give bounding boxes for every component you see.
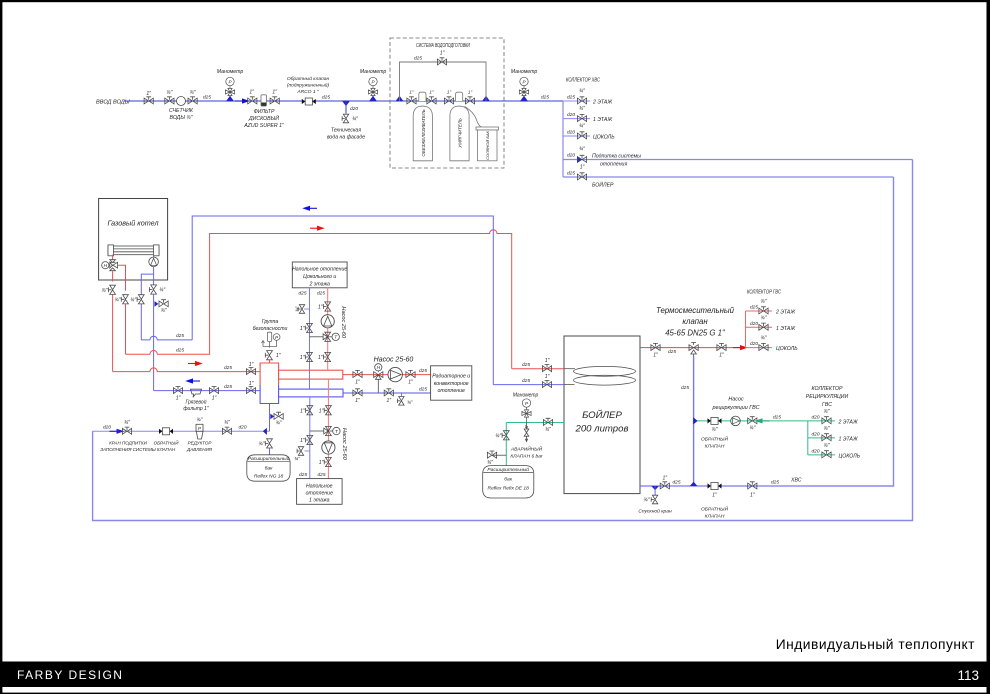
svg-text:d25: d25 (567, 171, 575, 177)
svg-text:1": 1" (176, 396, 181, 402)
valve 1" boiler branch (567, 165, 614, 189)
pump upper circuit 25-60 (321, 306, 346, 339)
wire technical water drop (345, 101, 347, 114)
svg-text:ОБЕЗЖЕЛЕЗИВАТЕЛЬ: ОБЕЗЖЕЛЕЗИВАТЕЛЬ (421, 109, 426, 156)
svg-text:¾": ¾" (407, 400, 413, 405)
svg-text:¾": ¾" (166, 90, 172, 96)
manifold return pipe (279, 389, 343, 397)
flow arrow recirc (755, 418, 770, 423)
wire boiler return down (153, 294, 155, 391)
svg-text:1 ЭТАЖ: 1 ЭТАЖ (776, 326, 796, 332)
valve 1" radiator supply (353, 370, 362, 385)
svg-text:1": 1" (440, 51, 445, 57)
svg-text:Расширительный: Расширительный (248, 455, 290, 462)
svg-text:1": 1" (355, 380, 360, 386)
wire boiler supply A down (112, 294, 114, 371)
svg-text:ГВС: ГВС (822, 402, 832, 408)
check valve make-up (154, 428, 180, 452)
svg-text:ЦОКОЛЬ: ЦОКОЛЬ (593, 135, 615, 141)
drain valve radiator return (398, 393, 413, 405)
node at manometer 2 (369, 96, 377, 102)
svg-text:клапан: клапан (682, 317, 708, 326)
valve 3/4" recirc 2 floor (812, 409, 859, 426)
wire boiler supply B down (125, 304, 127, 354)
svg-text:СОЛЯНОЙ БАК: СОЛЯНОЙ БАК (485, 130, 490, 159)
brine tank (476, 127, 499, 161)
svg-text:¾": ¾" (761, 299, 767, 305)
wire heating supply to separator (113, 368, 261, 372)
wire coil return outlet (493, 384, 564, 386)
valve 3/4" dhw return riser (130, 295, 144, 304)
valve 1" dhw outlet (651, 343, 660, 358)
svg-text:¾": ¾" (579, 89, 585, 95)
svg-text:¾": ¾" (159, 288, 165, 294)
valve 3/4" dhw 1 floor (750, 315, 796, 332)
valve 1" radiator return left (353, 389, 362, 404)
valve 1" radiator supply right (406, 370, 415, 385)
dhw tank body (564, 336, 640, 494)
svg-text:Напольное: Напольное (306, 484, 333, 490)
svg-text:РЕДУКТОР: РЕДУКТОР (188, 441, 212, 446)
svg-text:ВОДЫ ¾": ВОДЫ ¾" (169, 115, 193, 121)
wire recirc green line (694, 420, 808, 422)
svg-text:бак: бак (504, 477, 512, 483)
mixing valve lower circuit (310, 426, 340, 435)
svg-text:¾": ¾" (352, 117, 358, 123)
svg-text:1": 1" (276, 353, 281, 359)
flow arrow dhw return (302, 206, 317, 211)
svg-text:¾": ¾" (712, 427, 718, 433)
valve 3/4" branch 2 floor (567, 89, 613, 106)
drain valve technical water 3/4" (327, 114, 365, 140)
svg-text:УМЯГЧИТЕЛЬ: УМЯГЧИТЕЛЬ (458, 118, 463, 148)
svg-text:¾": ¾" (749, 426, 755, 432)
svg-text:¾": ¾" (102, 288, 108, 294)
valve 1" inlet (144, 91, 153, 104)
svg-text:2 ЭТАЖ: 2 ЭТАЖ (838, 419, 859, 425)
svg-text:¾": ¾" (761, 315, 767, 321)
svg-text:Манометр: Манометр (217, 69, 244, 75)
svg-text:d25: d25 (322, 95, 330, 101)
bottom page edge line (0, 693, 990, 694)
svg-text:1": 1" (409, 90, 414, 95)
node at manometer 3 (520, 96, 528, 102)
svg-text:d20: d20 (750, 321, 758, 327)
wire collector vertical (562, 101, 564, 177)
valve 3/4" recirc 1 floor (812, 426, 859, 443)
valve 1" bypass (437, 51, 446, 65)
svg-text:Цокольного и: Цокольного и (303, 274, 336, 280)
pump radiator branch (388, 367, 402, 381)
drain valve Спускной кран (638, 495, 672, 514)
svg-text:d25: d25 (750, 305, 758, 311)
svg-text:Термосмесительный: Термосмесительный (656, 306, 735, 315)
svg-text:конвекторное: конвекторное (434, 381, 469, 387)
pressure reducer (186, 418, 213, 453)
node bypass right (482, 96, 490, 102)
wire branch 1 floor (563, 118, 590, 120)
wire bypass line (400, 62, 487, 101)
svg-text:d25: d25 (419, 387, 427, 393)
wire upper return riser (309, 288, 311, 389)
svg-text:1": 1" (663, 476, 668, 482)
svg-text:d20: d20 (103, 425, 111, 431)
border frame top (0, 0, 990, 2)
svg-text:Грязевой: Грязевой (185, 399, 206, 406)
flow arrow on inlet line (235, 98, 250, 103)
svg-text:¾": ¾" (190, 90, 196, 96)
wire tank drain stub (654, 486, 656, 495)
svg-text:1": 1" (319, 460, 324, 466)
svg-text:СИСТЕМА ВОДОПОДГОТОВКИ: СИСТЕМА ВОДОПОДГОТОВКИ (416, 43, 470, 49)
svg-text:¾": ¾" (124, 420, 130, 426)
svg-text:1": 1" (146, 91, 151, 97)
safety relief valve 6 bar (510, 423, 543, 460)
valve 1" after vessel 2 (465, 90, 474, 104)
svg-text:d25: d25 (541, 95, 549, 101)
svg-text:¾": ¾" (276, 421, 282, 427)
wire exchanger to pump (153, 255, 155, 257)
svg-text:d20: d20 (812, 431, 820, 437)
wire lower supply riser (327, 379, 329, 479)
border frame left (0, 0, 2, 694)
valve 1" separator return (246, 381, 255, 394)
svg-text:Спускной кран: Спускной кран (638, 508, 672, 515)
svg-text:ФИЛЬТР: ФИЛЬТР (254, 109, 275, 115)
svg-text:1 ЭТАЖ: 1 ЭТАЖ (839, 436, 859, 442)
svg-text:1": 1" (712, 493, 717, 499)
wire separator bottom drop (269, 404, 271, 432)
valve 3/4" branch basement (567, 124, 615, 141)
svg-text:¾": ¾" (579, 147, 585, 153)
node at manometer 1 (226, 96, 234, 102)
svg-text:113: 113 (957, 668, 979, 683)
svg-text:d25: d25 (414, 56, 422, 62)
svg-text:КРАН ПОДПИТКИ: КРАН ПОДПИТКИ (109, 441, 147, 446)
node recirc junction (693, 417, 697, 424)
valve 3/4" dhw 2 floor (750, 299, 796, 316)
svg-text:ДИСКОВЫЙ: ДИСКОВЫЙ (248, 114, 279, 122)
wire radiator return (343, 392, 431, 394)
svg-text:1": 1" (318, 355, 323, 361)
svg-text:¾": ¾" (161, 308, 167, 314)
svg-text:БОЙЛЕР: БОЙЛЕР (592, 181, 614, 189)
valve 1" before vessel 2 (444, 90, 453, 104)
valve 1" cold line (748, 482, 757, 499)
valve 1" after vessel 1 (427, 90, 436, 104)
svg-text:d25: d25 (668, 349, 676, 355)
wire green drop to expansion tank (505, 423, 507, 466)
3-way valve with actuator H (102, 260, 118, 271)
wire dhw branch 2 floor (746, 310, 773, 312)
svg-text:ЦОКОЛЬ: ЦОКОЛЬ (839, 453, 861, 459)
svg-text:d25: d25 (317, 291, 325, 297)
mixing valve upper circuit (310, 332, 340, 341)
svg-text:1 этажа: 1 этажа (309, 498, 330, 504)
wire main cold water inlet line (124, 100, 563, 102)
valve make-up branch (567, 147, 641, 168)
water treatment dashed enclosure (390, 38, 504, 168)
wire pump outlet tee (141, 267, 153, 340)
svg-text:безопасности: безопасности (253, 326, 288, 332)
wire coil supply inlet (512, 368, 564, 370)
svg-text:¾": ¾" (258, 441, 264, 447)
svg-text:ЦОКОЛЬ: ЦОКОЛЬ (776, 346, 798, 352)
svg-text:Насос: Насос (728, 397, 744, 403)
svg-text:Reflex NG 18: Reflex NG 18 (254, 474, 284, 480)
svg-text:(подпружиненный): (подпружиненный) (287, 82, 330, 89)
valve 1" before filter (248, 90, 257, 104)
valve 1" after filter (270, 90, 279, 104)
svg-text:200 литров: 200 литров (575, 424, 629, 435)
drain valve lower return riser (294, 447, 310, 461)
wire expansion tank stub (269, 448, 271, 455)
wire dhw return lower horizontal (141, 336, 192, 340)
valve 1" coil supply (542, 358, 551, 372)
svg-text:рециркуляции ГВС: рециркуляции ГВС (711, 405, 759, 411)
hydraulic separator (260, 363, 279, 404)
node bypass left (395, 96, 403, 102)
svg-text:d25: d25 (522, 362, 530, 368)
wire 3-way valve side outlet (118, 265, 126, 291)
svg-text:Манометр: Манометр (360, 69, 387, 75)
svg-text:СЧЕТЧИК: СЧЕТЧИК (169, 108, 194, 114)
dirt filter 1" (183, 389, 208, 412)
wire make-up right riser and bottom loop (93, 160, 913, 521)
check valve ARCO 1" (287, 75, 330, 105)
valve 1" lower return from manifold (300, 406, 313, 415)
expansion tank Reflex Refix DE 18 (483, 466, 534, 498)
flow arrow dhw supply (310, 226, 325, 231)
node tee technical water (342, 101, 350, 107)
svg-text:КЛАПАН: КЛАПАН (705, 444, 725, 450)
svg-text:отопления: отопления (600, 162, 627, 168)
valve 1" lower supply from manifold (319, 406, 332, 415)
label box floor heating 1st floor (297, 479, 343, 505)
wire valve to separator (269, 360, 271, 363)
valve 1" return near boiler (173, 386, 182, 401)
svg-text:1": 1" (319, 408, 324, 414)
valve 1" separator supply (246, 362, 255, 375)
pump recirculation (731, 416, 741, 426)
svg-text:бак: бак (265, 466, 273, 472)
drain valve upper return riser (295, 305, 310, 314)
make-up fill valve 3/4" (100, 420, 155, 452)
svg-text:КОЛЛЕКТОР ГВС: КОЛЛЕКТОР ГВС (747, 290, 781, 296)
svg-text:1": 1" (719, 353, 724, 359)
svg-text:d25: d25 (224, 365, 232, 371)
svg-text:d25: d25 (176, 333, 184, 339)
svg-text:Обратный клапан: Обратный клапан (287, 75, 330, 82)
svg-text:отопление: отопление (306, 491, 333, 497)
svg-text:фильтр 1": фильтр 1" (183, 406, 208, 412)
svg-text:КОЛЛЕКТОР: КОЛЛЕКТОР (811, 386, 843, 392)
valve 3/4" recirc (748, 417, 757, 432)
tank heating coil (564, 366, 636, 385)
svg-text:d25: d25 (299, 472, 307, 478)
svg-text:ЗАПОЛНЕНИЯ СИСТЕМЫ: ЗАПОЛНЕНИЯ СИСТЕМЫ (100, 447, 155, 452)
svg-text:Насос 25-60: Насос 25-60 (374, 357, 414, 364)
wire recirc branch 2 floor (808, 420, 835, 422)
valve 3/4" green drop (495, 431, 509, 440)
valve 3/4" make-up right (222, 420, 231, 434)
svg-text:1": 1" (580, 165, 585, 171)
svg-text:AZUD SUPER 1": AZUD SUPER 1" (243, 123, 285, 129)
svg-text:d25: d25 (419, 368, 427, 374)
label box radiator and convector heating (431, 366, 472, 400)
svg-text:¾": ¾" (824, 426, 830, 432)
wire recirc collector vertical (807, 421, 809, 455)
svg-text:¾": ¾" (824, 409, 830, 415)
wire dhw collector vertical (745, 311, 747, 348)
svg-text:¾": ¾" (545, 427, 551, 433)
valve 1" upper return to manifold (300, 352, 313, 361)
svg-text:d20: d20 (239, 425, 247, 431)
svg-text:1": 1" (272, 90, 277, 96)
svg-text:Напольное отопление: Напольное отопление (292, 267, 347, 273)
svg-text:d25: d25 (224, 384, 232, 390)
node make-up junction (263, 428, 267, 435)
node drain tee tank (651, 486, 659, 490)
manometer 3 (511, 69, 538, 101)
valve 3/4" after meter (188, 90, 197, 104)
valve 3/4" recirc basement (812, 443, 861, 460)
valve 3/4" boiler supply A (102, 285, 116, 294)
svg-text:Индивидуальный теплопункт: Индивидуальный теплопункт (776, 637, 975, 652)
svg-text:1": 1" (249, 90, 254, 96)
svg-text:1": 1" (387, 398, 392, 404)
svg-text:d20: d20 (812, 448, 820, 454)
svg-text:1": 1" (300, 355, 305, 361)
svg-text:БОЙЛЕР: БОЙЛЕР (582, 409, 622, 421)
svg-text:1": 1" (750, 493, 755, 499)
svg-text:d25: d25 (681, 385, 689, 391)
svg-text:¾": ¾" (824, 443, 830, 449)
svg-text:Манометр: Манометр (511, 69, 538, 75)
svg-text:d20: d20 (567, 153, 575, 159)
svg-text:ДАВЛЕНИЯ: ДАВЛЕНИЯ (186, 447, 213, 452)
svg-text:¾": ¾" (644, 498, 650, 504)
svg-text:¾": ¾" (495, 433, 501, 439)
svg-text:2 этажа: 2 этажа (308, 282, 330, 288)
svg-text:d25: d25 (567, 95, 575, 101)
vessel 1 iron removal filter (413, 92, 432, 161)
node boiler drain tee (155, 301, 159, 307)
valve 1" upper supply riser (318, 302, 331, 311)
drain stub with valve 3/4" (487, 451, 506, 466)
svg-text:¾": ¾" (114, 297, 120, 303)
wire lower return riser (309, 397, 311, 479)
svg-text:FARBY DESIGN: FARBY DESIGN (17, 668, 123, 682)
water meter СЧЕТЧИК ВОДЫ 3/4" (169, 97, 194, 122)
valve 1" upper supply to manifold (318, 352, 331, 361)
svg-text:КОЛЛЕКТОР ХВС: КОЛЛЕКТОР ХВС (566, 78, 600, 84)
separator drain valve 3/4" (274, 412, 283, 426)
valve 1" after mixing (717, 343, 726, 358)
svg-text:H: H (104, 263, 108, 269)
wire radiator 3-way stem (377, 379, 379, 393)
svg-text:1": 1" (300, 326, 305, 332)
valve 3/4" dhw basement (746, 336, 799, 353)
footer black bar (0, 662, 990, 688)
wire green safety line (506, 422, 564, 424)
flow arrow make-up (110, 429, 125, 434)
wire branch heating make-up (563, 159, 913, 161)
node recirc drop junction (690, 482, 698, 486)
svg-text:ARCO 1 ": ARCO 1 " (296, 89, 319, 95)
svg-text:Газовый котел: Газовый котел (108, 219, 159, 228)
svg-text:d25: d25 (299, 291, 307, 297)
svg-text:1": 1" (545, 358, 550, 364)
valve 3/4" branch 1 floor (567, 106, 613, 123)
svg-text:1": 1" (447, 90, 452, 95)
svg-text:¾": ¾" (295, 306, 300, 312)
svg-text:¾": ¾" (197, 418, 203, 424)
svg-text:¾": ¾" (294, 456, 300, 461)
svg-text:1 ЭТАЖ: 1 ЭТАЖ (593, 117, 613, 123)
svg-text:КЛАПАН 6 bar: КЛАПАН 6 bar (510, 454, 543, 460)
wire exchanger to 3-way valve (112, 255, 114, 260)
svg-text:Расширительный: Расширительный (487, 466, 529, 473)
svg-text:d25: d25 (771, 480, 779, 486)
svg-text:d25: d25 (318, 472, 326, 478)
vessel 2 softener (450, 92, 469, 161)
check valve cold line (701, 483, 728, 520)
svg-text:отопление: отопление (438, 388, 465, 394)
svg-text:d25: d25 (673, 480, 681, 486)
svg-text:d20: d20 (350, 106, 358, 112)
svg-text:Манометр: Манометр (513, 393, 539, 399)
wire dhw supply horizontal (126, 230, 512, 369)
valve 1" before vessel 1 (407, 90, 416, 104)
disc filter AZUD SUPER 1" (243, 95, 285, 129)
svg-text:d25: d25 (773, 414, 781, 420)
wire 3-way valve bottom outlet (112, 271, 114, 282)
svg-text:Насос 25-60: Насос 25-60 (340, 306, 346, 339)
svg-text:1": 1" (355, 398, 360, 404)
svg-text:1": 1" (408, 380, 413, 386)
svg-text:Радиаторное и: Радиаторное и (432, 374, 470, 380)
svg-text:45-65 DN25 G 1": 45-65 DN25 G 1" (665, 329, 726, 338)
safety group assembly (262, 332, 281, 346)
svg-text:d20: d20 (567, 130, 575, 136)
wire boiler cold feed perimeter (810, 177, 894, 486)
svg-text:P: P (275, 335, 278, 340)
wire upper supply riser (327, 288, 329, 370)
wire brine hose (465, 107, 483, 128)
svg-text:РЕЦИРКУЛЯЦИИ: РЕЦИРКУЛЯЦИИ (806, 394, 849, 400)
svg-text:КЛАПАН: КЛАПАН (157, 447, 176, 452)
wire make-up horizontal (93, 430, 270, 432)
check valve recirc (701, 417, 728, 449)
flow arrow heating return (185, 378, 200, 383)
svg-text:Техническая: Техническая (331, 128, 361, 134)
svg-text:1": 1" (545, 374, 550, 380)
svg-text:Reflex Refix DE 18: Reflex Refix DE 18 (488, 486, 530, 492)
valve 1" lower supply riser (319, 457, 332, 466)
valve 1" coil return (542, 374, 551, 388)
svg-text:¾": ¾" (579, 106, 585, 112)
valve 1" separator top (265, 346, 280, 359)
svg-text:1": 1" (429, 90, 434, 95)
svg-text:1": 1" (300, 438, 305, 444)
svg-text:2 ЭТАЖ: 2 ЭТАЖ (775, 310, 796, 316)
flow arrow dhw to collector (733, 345, 748, 350)
wire branch basement (563, 135, 590, 137)
svg-text:d25: d25 (176, 348, 184, 354)
wire mixing valve cold drop (693, 356, 695, 486)
svg-text:1": 1" (468, 90, 473, 95)
